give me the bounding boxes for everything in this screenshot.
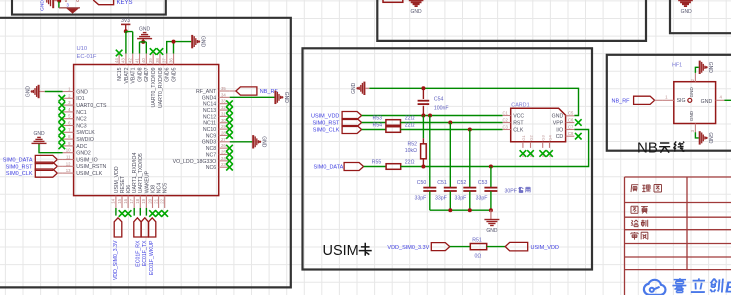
svg-text:30: 30 [221,118,226,123]
section box top-right (cut off) [670,0,731,33]
svg-text:16: 16 [123,198,128,203]
svg-text:NC7: NC7 [206,152,216,158]
U10 pin 23 NC6 [219,166,230,168]
svg-text:0Ω: 0Ω [475,254,482,260]
no-connect X at U10 pin 24 [226,158,233,165]
CARD1 pin C5 GND [566,115,575,117]
ground GND in top-middle box [409,0,424,6]
svg-text:GND: GND [351,82,357,94]
ground GND above HF1 (pointing right) [699,61,701,74]
svg-text:USIM_VDD: USIM_VDD [114,166,120,193]
svg-text:32: 32 [221,105,226,110]
svg-text:EC01F_TX: EC01F_TX [142,240,148,266]
CARD1 pin C3 CLK [503,129,511,131]
U10 pin 27 GND3 [219,141,230,143]
svg-text:KEYS: KEYS [117,0,133,6]
svg-text:NC13: NC13 [203,108,216,114]
svg-text:WAKEUP: WAKEUP [144,170,150,193]
svg-text:GND: GND [411,9,423,15]
svg-text:39: 39 [148,58,153,63]
CARD1 pin C1 VCC [503,115,511,117]
svg-text:R53: R53 [373,116,383,122]
svg-text:33pF: 33pF [476,196,488,202]
svg-text:22: 22 [160,198,165,203]
no-connect X at U10 pin 2 [59,95,66,102]
U10 pin 33 NC14 [219,103,230,105]
wire GND6 GND5 pins to GND right [167,42,192,54]
svg-text:G3: G3 [541,134,546,140]
net flag SIM0_CLK [342,126,362,134]
ground GND in top-right box [678,0,693,6]
U10 pin 12 USIM_RSTN [63,165,74,167]
wire pin10 GND [39,143,63,152]
svg-text:GND: GND [701,99,713,105]
svg-text:GND: GND [139,26,151,32]
HF1 sig circle [688,98,692,102]
svg-text:41: 41 [134,58,139,63]
svg-text:GND: GND [707,62,713,74]
svg-text:GND: GND [707,132,713,144]
U10 pin 31 NC12 [219,115,230,117]
HF1 pin1 stub [663,99,674,101]
junction dot KEYS [57,0,61,3]
svg-text:EC-01F: EC-01F [77,54,97,60]
net flag SIM0_CLK [35,169,57,177]
svg-text:NC8: NC8 [206,146,216,152]
svg-text:C7: C7 [568,124,574,129]
junction dot CLK/C52 [468,128,472,132]
svg-text:GND: GND [681,9,693,15]
svg-text:10: 10 [66,148,71,153]
U10 pin 8 SWDIO [63,138,74,140]
svg-text:USIM_RSTN: USIM_RSTN [76,164,106,170]
ground GND right of U10 top (pointing right) [191,35,193,48]
wire KEYS [54,0,59,2]
no-connect X at CARD1 pin G4 [546,150,553,157]
junction dot 3V3 [124,29,128,33]
net flag SIM0_RST [35,162,57,170]
ground GND below HF1 (pointing right) [699,131,701,144]
U10 pin 22 NC5 [164,196,166,208]
HF1 pin2 stub top [694,73,696,82]
svg-text:40: 40 [141,58,146,63]
svg-text:UART0_CTS: UART0_CTS [76,103,107,109]
no-connect X at CARD1 pin G2 [527,150,534,157]
capacitor C54 [422,88,424,99]
wire U10 GND4 pin34 [230,96,275,98]
svg-text:10kΩ: 10kΩ [405,148,417,154]
wire DATA line right [401,130,589,167]
svg-text:15: 15 [117,198,122,203]
no-connect X at U10 pin 21 [155,210,162,217]
junction dot VDD/C54 [421,114,425,118]
svg-text:UART0_RXD/IO8: UART0_RXD/IO8 [158,67,164,108]
U10 pin 24 VO_LDO_18G33O [219,160,230,162]
wire cap bottom rail [430,209,491,211]
svg-text:43: 43 [121,58,126,63]
svg-text:SIG: SIG [677,98,686,104]
svg-text:GND: GND [552,114,564,120]
svg-text:SIM0_DATA: SIM0_DATA [3,158,33,164]
svg-text:24: 24 [221,156,226,161]
svg-text:29: 29 [221,124,226,129]
svg-text:GND7: GND7 [144,67,150,82]
svg-text:NC3: NC3 [76,123,86,129]
U10 pin 1 GND [63,91,74,93]
U10 pin 35 RF_ANT [219,90,230,92]
svg-text:SIM0_RST: SIM0_RST [6,164,34,170]
svg-text:13: 13 [66,168,71,173]
ground left-pointing (cut) in KEYS box [52,0,54,8]
svg-text:GND: GND [261,136,267,148]
junction dot C54 top [421,86,425,90]
U10 pin 20 IO8 [152,196,154,208]
svg-text:GND: GND [40,0,46,11]
svg-text:ADC: ADC [76,144,87,150]
U10 pin 10 GND2 [63,152,74,154]
svg-text:VDD_SIM0_3.3V: VDD_SIM0_3.3V [113,240,119,280]
svg-text:GND: GND [25,86,31,98]
svg-text:12: 12 [66,161,71,166]
svg-text:IO6: IO6 [126,185,132,193]
svg-text:11: 11 [66,155,71,160]
resistor R55 [386,164,401,170]
svg-text:G2: G2 [529,134,534,140]
U10 pin 44 NC15 [118,54,120,65]
svg-text:CARD1: CARD1 [511,102,529,108]
CARD1 bottom pin G2 [530,142,532,148]
ground GND at U10 pin1 (pointing left) [38,85,40,98]
svg-text:CLK: CLK [513,127,524,133]
U10 pin 26 NC8 [219,147,230,149]
svg-text:GND: GND [486,228,498,234]
U10 pin 32 NC13 [219,109,230,111]
ground GND below caps [490,210,492,219]
svg-text:GND: GND [689,110,694,121]
svg-text:EC01F_RX: EC01F_RX [135,240,141,267]
ground GND at U10 pin10 (pointing up) [32,142,47,144]
U10 pin 38 UART0_RXD/IO8 [159,54,161,65]
U10 pin 29 NC10 [219,128,230,130]
svg-text:NB_RF: NB_RF [612,99,631,105]
svg-text:UART0_TXD/IO9: UART0_TXD/IO9 [151,67,157,107]
svg-text:C53: C53 [478,180,488,186]
ground GND in USIM top-left (pointing left) [363,82,365,95]
HF1 pin3 stub bottom [694,124,696,133]
svg-text:GND: GND [689,87,694,98]
svg-text:GND: GND [283,92,289,104]
wire HF1 pin2 to GND [695,67,698,73]
svg-text:22Ω: 22Ω [405,116,415,122]
svg-text:33pF: 33pF [455,196,467,202]
wire to R51 [450,246,471,248]
component (cut) in top-middle box [383,0,403,2]
U10 pin 21 NC4 [158,196,160,208]
ground GND at U10 pin27 (pointing right) [252,135,254,148]
CARD1 pin C6 VPP [566,122,575,124]
svg-text:22Ω: 22Ω [405,122,415,128]
junction dots cap rail [448,208,452,212]
capacitor C53 33pF [490,167,492,188]
wire R51 to USIM_VDD [487,246,506,248]
junction dot top right [172,40,176,44]
title block row label reviewed [631,232,638,240]
U10 pin 9 ADC [63,145,74,147]
svg-text:18: 18 [135,198,140,203]
HF1 pin4 stub [716,99,725,101]
net flag USIM_VDD bottom [505,242,528,251]
ground GND above U10 (pointing up) [137,38,152,40]
resistor R53 [386,120,401,126]
netport EC01F_WKUP at pin19 [145,208,147,216]
svg-text:SIM0_DATA: SIM0_DATA [314,165,344,171]
U10 pin 6 NC3 [63,125,74,127]
no-connect X CARD1 CD [575,133,582,140]
svg-text:C50: C50 [417,180,427,186]
antenna HF1 body [674,82,716,124]
svg-text:C6: C6 [568,117,574,122]
U10 pin 25 NC7 [219,154,230,156]
svg-text:NC5: NC5 [163,183,169,193]
wire 3V3 to VBAT pins [126,31,133,53]
svg-text:GND: GND [200,36,206,48]
svg-text:NC9: NC9 [206,133,216,139]
svg-text:25: 25 [221,150,226,155]
svg-text:NC10: NC10 [203,127,216,133]
svg-text:GND4: GND4 [202,95,217,101]
logo JLCEDA text [672,278,723,292]
wire GND to GND8 GND7 pins [140,42,147,54]
svg-text:USIM_VDD: USIM_VDD [531,245,559,251]
svg-text:C54: C54 [434,97,444,103]
CARD1 pin C7 I/O [566,129,575,131]
svg-text:27: 27 [221,137,226,142]
svg-text:22Ω: 22Ω [405,159,415,165]
U10 pin 34 GND4 [219,96,230,98]
svg-text:UART1_RXD/IO4: UART1_RXD/IO4 [132,153,138,194]
svg-text:NC2: NC2 [76,117,86,123]
svg-text:NC1: NC1 [76,110,86,116]
no-connect X U10 top pin44 [116,50,123,57]
no-connect X at U10 pin 8 [59,136,66,143]
no-connect X U10 top pins 38 37 [150,48,157,55]
wire VDD line [362,115,503,117]
U10 pin 14 USIM_VDD [115,196,117,208]
no-connect X at U10 pin 7 [59,129,66,136]
svg-text:GND8: GND8 [137,67,143,82]
junction dot GND top [141,40,145,44]
svg-text:VDD_SIM0_3.3V: VDD_SIM0_3.3V [387,245,429,251]
net flag USIM_VDD [342,112,362,120]
capacitor C51 33pF [449,123,451,188]
svg-text:USIM: USIM [323,243,359,259]
svg-text:NC12: NC12 [203,114,216,120]
capacitor C52 33pF [469,130,471,188]
ground GND at U10 pin34 (pointing right) [274,91,276,104]
CARD1 bottom pin G4 [549,142,551,148]
svg-text:36: 36 [168,58,173,63]
net flag NB_RF at U10 pin35 [230,90,236,92]
svg-text:USIM_CLK: USIM_CLK [76,171,102,177]
CARD1 bottom pin G3 [542,142,544,148]
section box KEYS (cut off at top) [12,0,166,15]
svg-text:38: 38 [155,58,160,63]
IC CARD1 sim holder [511,108,566,142]
no-connect X at U10 pin 15 [119,210,126,217]
svg-text:IO8: IO8 [150,185,156,193]
svg-text:34: 34 [221,92,226,97]
section box top-middle (cut off) [377,0,646,41]
svg-text:33: 33 [221,99,226,104]
wire U10 GND3 pin27 [230,141,253,143]
junction dot DATA/C53 [489,165,493,169]
svg-text:33pF: 33pF [415,196,427,202]
U10 pin 2 IO1 [63,97,74,99]
svg-text:I/O: I/O [556,127,563,133]
CARD1 pin C2 RST [503,122,511,124]
svg-text:33pF: 33pF [435,196,447,202]
U10 pin 17 UART1_RXD/IO4 [133,196,135,208]
title block row label drawn [631,220,638,227]
wire pin1 to GND [45,91,63,93]
svg-text:GND6: GND6 [165,67,171,82]
no-connect X at U10 pin 5 [59,115,66,122]
svg-text:C5: C5 [568,111,574,116]
svg-text:VO_LDO_18G33O: VO_LDO_18G33O [173,159,217,165]
svg-text:C2: C2 [503,117,509,122]
U10 pin 37 GND6 [166,54,168,65]
no-connect X at U10 pin 9 [59,143,66,150]
svg-text:NC15: NC15 [117,67,123,80]
svg-text:37: 37 [162,58,167,63]
U10 pin 19 WAKEUP [145,196,147,208]
wire CLK line right [401,129,503,131]
section box main module [0,18,291,288]
svg-text:G1: G1 [521,134,526,140]
wire CLK line left [362,129,386,131]
svg-text:30PF: 30PF [505,188,517,194]
svg-text:HF1: HF1 [672,62,682,68]
svg-text:NC4: NC4 [157,183,163,193]
U10 pin 39 UART0_TXD/IO9 [152,54,154,65]
U10 pin 3 UART0_CTS [63,104,74,106]
svg-text:C52: C52 [457,180,467,186]
svg-text:42: 42 [128,58,133,63]
resistor R54 [386,127,401,133]
wire GND rail USIM [369,88,578,115]
U10 pin 13 USIM_CLK [63,172,74,174]
svg-text:VBAT2: VBAT2 [124,67,130,83]
U10 pin 40 GND7 [145,54,147,65]
CARD1 bottom pin G1 [522,142,524,148]
svg-text:CD: CD [556,134,564,140]
svg-text:C51: C51 [437,180,447,186]
U10 pin 18 UART1_TXD/IO5 [139,196,141,208]
svg-text:SWDIO: SWDIO [76,137,94,143]
no-connect X at U10 pin 16 [125,210,132,217]
svg-text:USIM_IO: USIM_IO [76,157,97,163]
svg-text:E: E [725,280,731,295]
section box NB antenna [607,55,731,151]
svg-text:SIM0_CLK: SIM0_CLK [6,171,33,177]
net flag SIM0_DATA [344,163,364,171]
svg-text:SWCLK: SWCLK [76,130,95,136]
U10 pin 36 GND5 [173,54,175,65]
netport VDD_SIM0_3.3V at pin14 [115,208,117,216]
svg-text:RF_ANT: RF_ANT [196,89,217,95]
no-connect X at U10 pin 29 [226,126,233,133]
svg-text:GND5: GND5 [171,67,177,82]
svg-text:21: 21 [153,198,158,203]
title block row label sheet [631,206,638,213]
svg-text:G4: G4 [548,134,553,140]
junction dot DATA/R52 [421,165,425,169]
svg-text:GND: GND [33,131,45,137]
svg-text:35: 35 [221,86,226,91]
junction dot VDD/C50 [428,114,432,118]
net flag SIM0_RST [342,119,362,127]
U10 pin 16 IO6 [127,196,129,208]
svg-text:SIM0_RST: SIM0_RST [312,121,340,127]
svg-text:100nF: 100nF [434,106,449,112]
svg-text:R51: R51 [472,238,482,244]
svg-text:GND: GND [76,89,88,95]
svg-text:NC6: NC6 [206,165,216,171]
no-connect X at U10 pin 26 [226,145,233,152]
svg-text:26: 26 [221,143,226,148]
svg-text:VBAT1: VBAT1 [131,67,137,83]
no-connect X at U10 pin 31 [226,113,233,120]
wire DATA line left [364,166,387,168]
svg-text:GND3: GND3 [202,140,217,146]
U10 pin 11 USIM_IO [63,159,74,161]
no-connect X at CARD1 pin G3 [539,150,546,157]
svg-text:IO1: IO1 [76,96,84,102]
svg-text:17: 17 [129,198,134,203]
logo JLCEDA cloud [644,280,666,295]
no-connect X at U10 pin 22 [161,210,168,217]
svg-text:USIM_VDD: USIM_VDD [311,114,339,120]
IC U10 EC-01F body [74,65,219,196]
U10 pin 43 VBAT2 [125,54,127,65]
no-connect X at U10 pin 28 [226,132,233,139]
svg-text:28: 28 [221,130,226,135]
svg-text:SIM0_CLK: SIM0_CLK [313,128,340,134]
netport EC01F_TX at pin18 [139,208,141,216]
U10 pin 41 GND8 [139,54,141,65]
svg-text:14: 14 [111,198,116,203]
gnd arrow down in KEYS box [68,9,78,13]
svg-text:VCC: VCC [513,113,524,119]
wire RST line right [401,122,503,124]
no-connect X at U10 pin 6 [59,122,66,129]
svg-text:3V3: 3V3 [121,18,130,24]
no-connect X at U10 pin 3 [59,102,66,109]
U10 pin 28 NC9 [219,134,230,136]
net flag (cut) in KEYS box [93,0,113,5]
no-connect X CARD1 VPP [575,119,582,126]
no-connect X at U10 pin 25 [226,151,233,158]
svg-text:RESET: RESET [120,175,126,193]
title block row label schematic [631,185,638,192]
svg-text:UART1_TXD/IO5: UART1_TXD/IO5 [138,153,144,193]
resistor R52 pullup [422,116,424,139]
U10 pin 7 SWCLK [63,131,74,133]
resistor R51 0ohm [470,244,486,250]
svg-text:GND2: GND2 [76,151,91,157]
section box USIM [303,48,593,269]
svg-text:R52: R52 [407,141,417,147]
